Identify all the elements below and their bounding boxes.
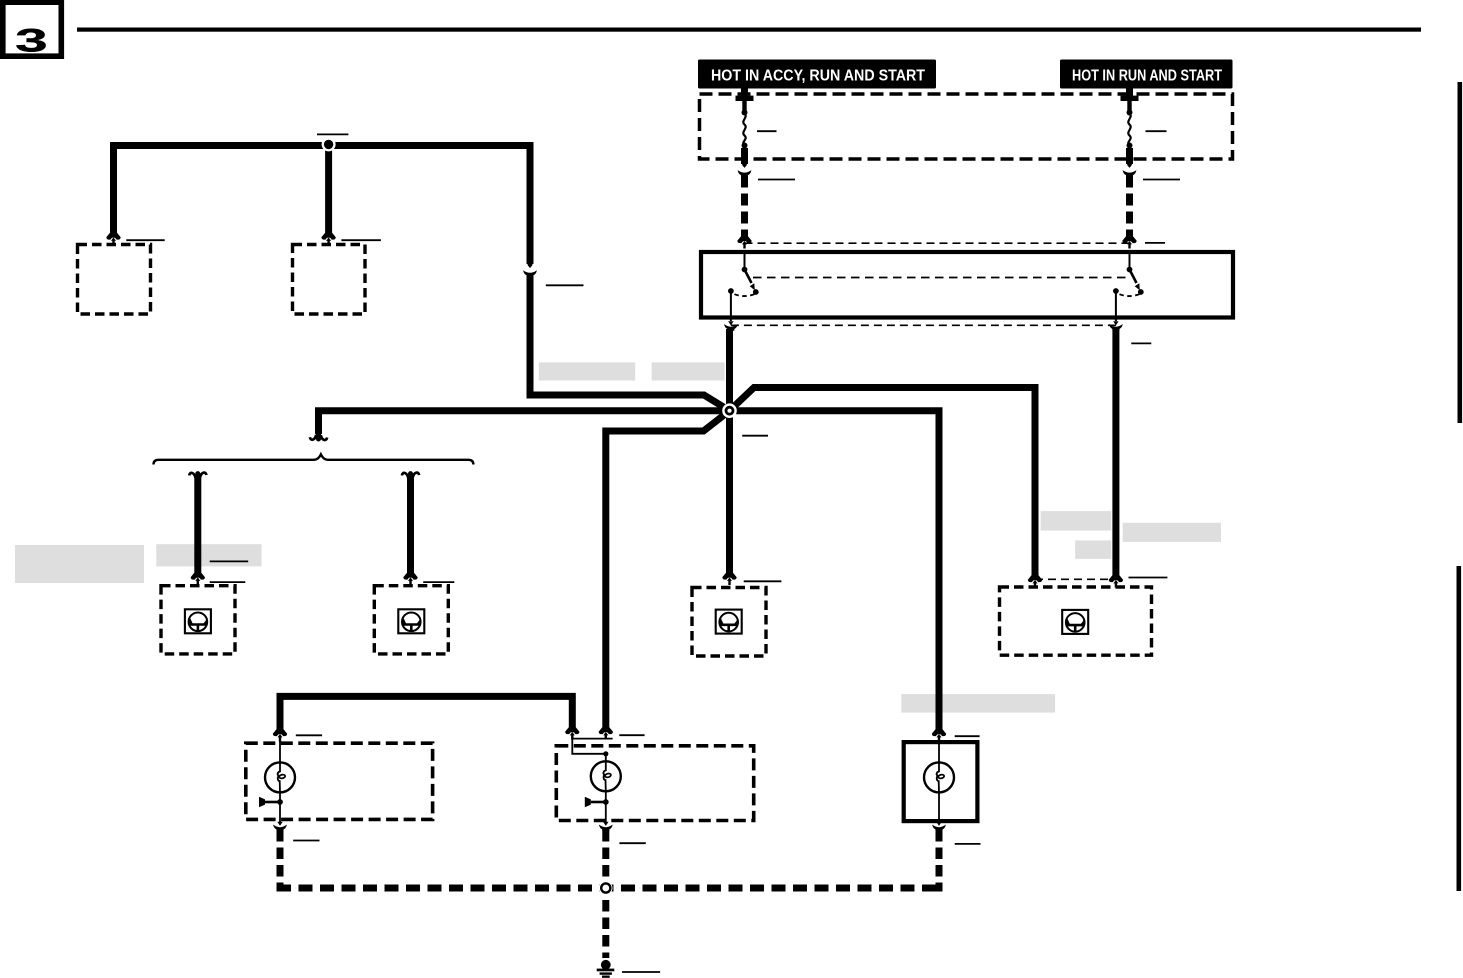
svg-text:3: 3	[15, 23, 48, 59]
svg-text:HOT IN ACCY, RUN AND START: HOT IN ACCY, RUN AND START	[711, 68, 925, 85]
svg-text:HOT IN RUN AND START: HOT IN RUN AND START	[1072, 68, 1222, 85]
